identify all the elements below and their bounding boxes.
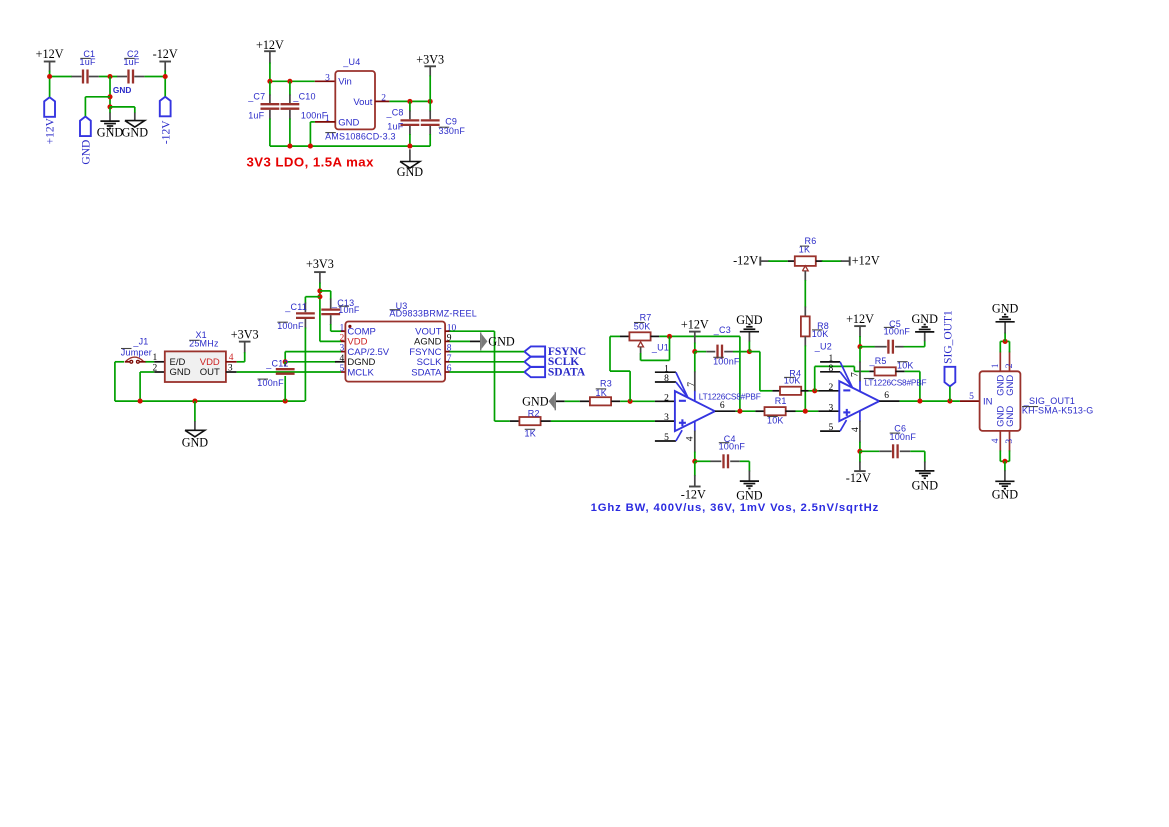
svg-text:GND: GND [170,367,191,378]
svg-text:GND: GND [1005,375,1016,396]
svg-text:+3V3: +3V3 [231,327,259,341]
svg-text:6: 6 [884,391,889,401]
svg-text:-12V: -12V [846,471,871,485]
svg-text:+12V: +12V [36,47,64,61]
svg-text:_C11: _C11 [284,302,307,312]
svg-text:_R5: _R5 [869,356,887,366]
svg-text:SDATA: SDATA [411,367,442,378]
svg-text:GND: GND [182,436,209,450]
svg-text:GND: GND [338,117,359,128]
svg-text:GND: GND [488,335,515,349]
svg-text:GND: GND [80,140,92,165]
svg-text:Vin: Vin [338,77,352,88]
svg-text:_C10: _C10 [292,92,315,102]
svg-text:GND: GND [992,488,1019,502]
svg-text:8: 8 [664,374,669,384]
svg-text:MCLK: MCLK [347,367,374,378]
svg-text:6: 6 [720,401,725,411]
svg-text:4: 4 [339,354,344,364]
svg-text:-12V: -12V [160,120,172,144]
svg-text:GND: GND [911,312,938,326]
svg-text:_C8: _C8 [386,108,404,118]
svg-text:OUT: OUT [200,367,220,378]
svg-text:_U1: _U1 [651,343,669,353]
svg-text:+12V: +12V [852,253,880,267]
svg-text:3: 3 [664,413,669,423]
svg-text:_J1: _J1 [132,337,148,347]
svg-text:5: 5 [969,392,974,402]
svg-text:_C7: _C7 [247,92,265,102]
svg-text:2: 2 [381,94,386,104]
svg-text:_U2: _U2 [814,341,832,351]
svg-text:-12V: -12V [153,47,178,61]
svg-text:GND: GND [522,394,549,408]
svg-text:+12V: +12V [256,38,284,52]
svg-text:_U4: _U4 [342,57,360,67]
svg-text:R1: R1 [775,396,787,406]
svg-text:1: 1 [664,364,669,374]
svg-text:GND: GND [113,85,131,95]
svg-text:3: 3 [339,344,344,354]
svg-text:1: 1 [991,363,1001,368]
svg-text:3V3 LDO, 1.5A max: 3V3 LDO, 1.5A max [247,155,375,170]
svg-text:AD9833BRMZ-REEL: AD9833BRMZ-REEL [389,309,477,319]
svg-text:+12V: +12V [681,318,709,332]
svg-text:4: 4 [991,438,1001,443]
svg-text:3: 3 [1005,439,1015,444]
svg-text:_C12: _C12 [265,358,288,368]
svg-text:+3V3: +3V3 [306,257,334,271]
svg-text:IN: IN [983,396,993,407]
svg-text:5: 5 [829,423,834,433]
svg-text:GND: GND [397,165,424,179]
svg-text:2: 2 [829,383,834,393]
svg-text:1uF: 1uF [248,111,264,121]
svg-text:3: 3 [228,363,233,373]
svg-text:3: 3 [829,403,834,413]
svg-text:1: 1 [339,323,344,333]
svg-text:GND: GND [992,302,1019,316]
svg-text:R2: R2 [528,408,540,418]
svg-text:Vout: Vout [353,97,372,108]
svg-text:7: 7 [851,372,861,377]
svg-text:+3V3: +3V3 [416,52,444,66]
svg-text:LT1226CS8#PBF: LT1226CS8#PBF [699,391,761,401]
svg-text:3: 3 [325,73,330,83]
svg-text:C9: C9 [445,117,457,127]
svg-text:1: 1 [152,353,157,363]
svg-text:+12V: +12V [45,117,57,144]
svg-text:4: 4 [686,436,696,441]
svg-text:10K: 10K [784,375,801,385]
svg-text:2: 2 [664,393,669,403]
svg-text:1uF: 1uF [387,121,403,131]
svg-text:100nF: 100nF [301,110,328,120]
svg-text:SDATA: SDATA [548,366,586,378]
svg-text:GND: GND [1005,406,1016,427]
svg-text:-12V: -12V [733,253,758,267]
svg-text:1: 1 [829,354,834,364]
svg-text:5: 5 [339,364,344,374]
svg-text:GND: GND [912,478,939,492]
svg-text:+12V: +12V [846,312,874,326]
svg-text:GND: GND [736,313,763,327]
svg-text:5: 5 [664,433,669,443]
svg-text:2: 2 [1005,363,1015,368]
svg-text:4: 4 [229,353,234,363]
svg-text:GND: GND [122,126,149,140]
svg-text:1Ghz BW, 400V/us, 36V, 1mV Vos: 1Ghz BW, 400V/us, 36V, 1mV Vos, 2.5nV/sq… [591,502,880,514]
svg-text:-12V: -12V [681,488,706,502]
svg-text:4: 4 [851,427,861,432]
svg-text:7: 7 [687,382,697,387]
svg-text:2: 2 [339,334,344,344]
svg-text:SIG_OUT1: SIG_OUT1 [943,310,955,364]
svg-text:8: 8 [829,364,834,374]
svg-text:GND: GND [736,488,763,502]
svg-text:GND: GND [97,126,124,140]
svg-text:_C3: _C3 [713,325,731,335]
